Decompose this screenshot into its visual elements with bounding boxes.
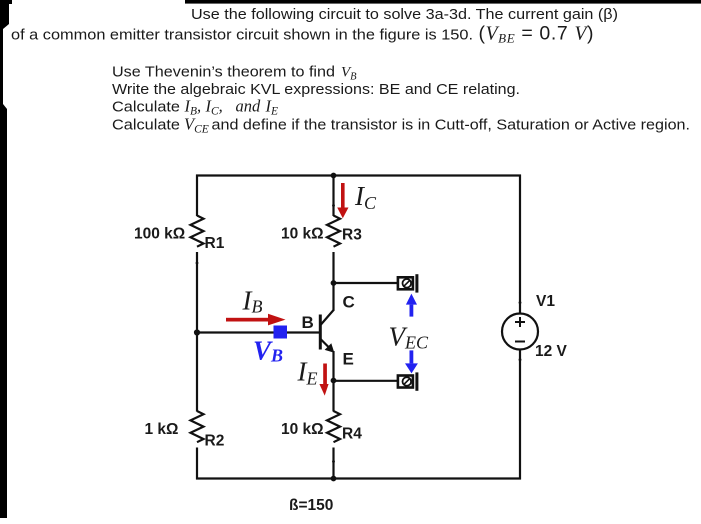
- svg-text:R1: R1: [205, 235, 225, 252]
- svg-text:ß=150: ß=150: [289, 497, 333, 514]
- transistor Q1: emitter lead with arrow: [321, 339, 333, 351]
- svg-text:and define if the transistor i: and define if the transistor is in Cutt-…: [212, 116, 691, 133]
- wire: left rail lower: [196, 448, 198, 480]
- node: bottom junction dot: [331, 476, 337, 482]
- wire: left rail upper: [196, 175, 198, 217]
- svg-text:V1: V1: [536, 293, 555, 310]
- svg-text:R4: R4: [342, 426, 362, 443]
- wire: collector probe wire: [334, 282, 398, 284]
- current arrow IB: [226, 314, 286, 326]
- svg-text:Use the following circuit to s: Use the following circuit to solve 3a-3d…: [191, 6, 618, 23]
- wire: below R4: [332, 448, 334, 480]
- wire: collector branch below R3: [332, 252, 334, 284]
- svg-text:Use Thevenin’s theorem to find: Use Thevenin’s theorem to find: [112, 63, 335, 80]
- probe: emitter measurement probe: [398, 372, 419, 390]
- svg-text:100 kΩ: 100 kΩ: [134, 226, 185, 243]
- resistor R1: [134, 216, 225, 253]
- wire: bottom rail: [196, 477, 521, 479]
- svg-text:12 V: 12 V: [535, 343, 568, 360]
- current arrow IE: [319, 364, 328, 396]
- wire: left rail middle: [196, 252, 198, 412]
- svg-text:of a common emitter transistor: of a common emitter transistor circuit s…: [11, 27, 473, 44]
- wire: right rail lower: [519, 350, 521, 480]
- node: top junction dot: [331, 173, 337, 179]
- transistor Q1: collector lead: [332, 282, 334, 310]
- svg-text:1 kΩ: 1 kΩ: [145, 421, 179, 438]
- resistor R2: [145, 411, 225, 450]
- scan artifact: left black strip: [0, 0, 9, 518]
- resistor R4: [281, 411, 362, 443]
- svg-text:E: E: [343, 350, 354, 369]
- wire: collector branch top stub: [332, 176, 334, 217]
- wire: base wire: [197, 331, 320, 333]
- current arrow IC: [337, 183, 348, 218]
- voltage source V1: [502, 293, 568, 360]
- wire: emitter branch to R4: [332, 381, 334, 412]
- arrow: blue down arrow (emitter probe): [405, 350, 418, 373]
- wire: emitter probe wire: [334, 380, 398, 382]
- wire: top rail: [196, 174, 521, 176]
- arrow: blue up arrow (collector probe): [406, 294, 417, 317]
- svg-text:10 kΩ: 10 kΩ: [281, 421, 324, 438]
- resistor R3: [281, 216, 362, 247]
- node: VB probe square: [274, 326, 288, 339]
- svg-text:Write the algebraic KVL expres: Write the algebraic KVL expressions: BE …: [112, 81, 520, 98]
- svg-text:R3: R3: [342, 227, 362, 244]
- wire: right rail upper: [519, 175, 521, 315]
- pin tick marks: [196, 204, 522, 463]
- svg-text:C: C: [343, 293, 355, 312]
- transistor Q1: base bar: [319, 315, 322, 350]
- svg-text:B: B: [302, 313, 314, 332]
- svg-text:Calculate: Calculate: [112, 116, 180, 133]
- probe: collector measurement probe: [398, 274, 419, 292]
- svg-text:Calculate: Calculate: [112, 99, 180, 116]
- svg-text:(VBE = 0.7 V): (VBE = 0.7 V): [479, 23, 594, 46]
- svg-text:R2: R2: [205, 433, 225, 450]
- scan artifact: top black bar: [0, 0, 701, 4]
- node: emitter junction dot: [331, 378, 337, 384]
- node: collector junction dot: [331, 280, 337, 286]
- svg-text:10 kΩ: 10 kΩ: [281, 226, 324, 243]
- node: base junction dot: [194, 329, 200, 335]
